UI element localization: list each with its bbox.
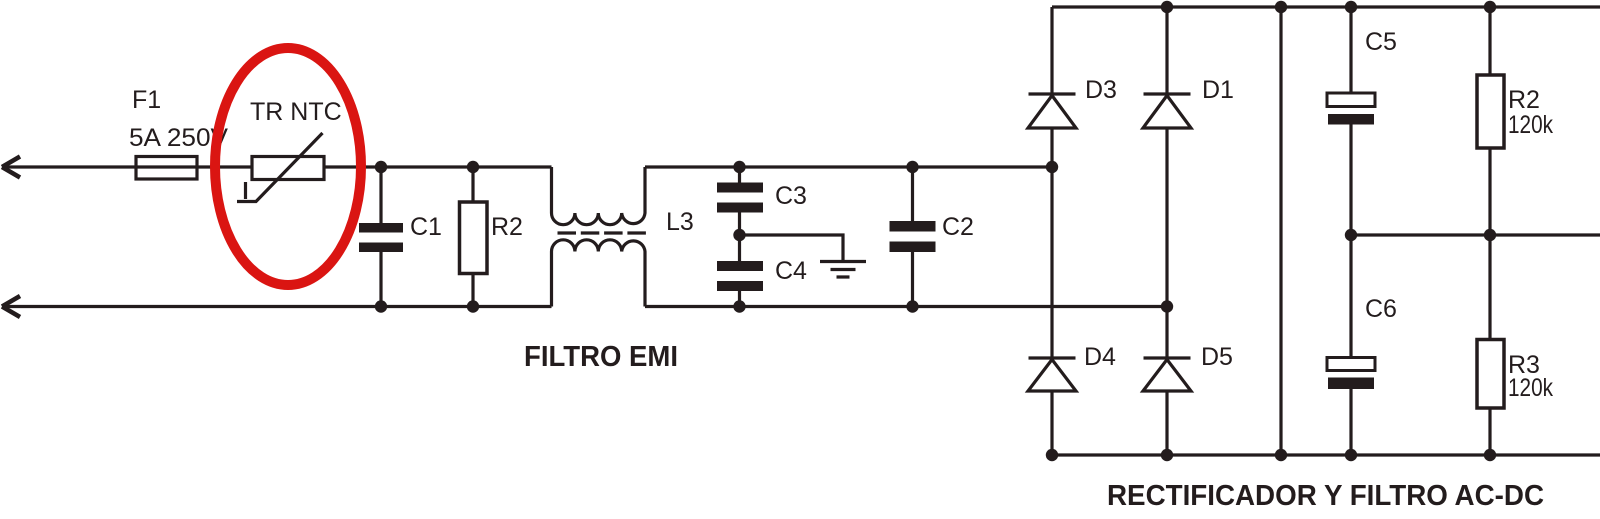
node bridge AC right junction [1161,300,1173,312]
svg-text:C2: C2 [942,213,974,241]
svg-text:R2: R2 [1508,86,1540,114]
capacitor C5 (polarized) [1327,93,1375,125]
resistor R2 (left) body [460,202,488,274]
svg-text:D5: D5 [1201,343,1233,371]
ground symbol [820,262,866,278]
svg-text:C5: C5 [1365,28,1397,56]
svg-text:R2: R2 [491,213,523,241]
wire bridge right column [1165,7,1168,455]
capacitor C6 (polarized) [1327,358,1375,390]
node bottom bus D4 junction [1046,449,1058,461]
node bottom wire C4 junction [733,300,745,312]
wire bottom DC bus [1052,453,1600,456]
svg-text:120k: 120k [1508,111,1553,139]
svg-text:TR NTC: TR NTC [250,98,342,126]
capacitor C2 plates [890,221,936,252]
thermistor TR NTC diagonal stroke [237,133,323,202]
wire top AC line left segment (L input) [3,165,552,168]
inductor L3 bottom winding [552,240,646,307]
wire bridge output column [1279,7,1282,455]
node bottom bus C6 junction [1345,449,1357,461]
wire capacitor C2 leads [911,167,914,307]
node top bus C5 junction [1345,1,1357,13]
node top bus D1 junction [1161,1,1173,13]
wire middle rail [1351,233,1600,236]
wire capacitor C1 leads [379,167,382,307]
svg-text:FILTRO EMI: FILTRO EMI [524,341,678,373]
svg-text:C1: C1 [410,213,442,241]
capacitor C1 plates [359,223,403,252]
node bottom wire C2 junction [906,300,918,312]
arrow left on bottom AC line [2,296,20,317]
diode D4 [1028,358,1076,391]
svg-text:D1: D1 [1202,76,1234,104]
node top wire R2 junction [467,161,479,173]
node top wire C1 junction [375,161,387,173]
diode D5 [1143,358,1191,391]
svg-text:120k: 120k [1508,374,1553,402]
node top bus bridge output junction [1275,1,1287,13]
resistor R3 body [1477,340,1504,409]
node C3 C4 midpoint junction [733,229,745,241]
node bottom bus D5 junction [1161,449,1173,461]
capacitor C4 plates [717,261,763,291]
fuse F1 [136,157,197,180]
capacitor C3 plates [717,183,763,213]
svg-text:F1: F1 [132,86,161,114]
diode D3 [1028,94,1076,128]
svg-text:C3: C3 [775,182,807,210]
wire capacitor C5 C6 column [1349,7,1352,455]
node top wire C2 junction [906,161,918,173]
wire resistor R2 (left) leads [471,167,474,307]
thermistor TR NTC tick mark [244,182,247,199]
node bottom wire R2 junction [467,300,479,312]
node bridge AC left junction [1046,161,1058,173]
wire bottom AC line right segment (choke to bridge) [645,305,1167,308]
svg-text:D3: D3 [1085,76,1117,104]
wire resistor R2 R3 column [1488,7,1491,455]
wire bridge left column [1050,7,1053,455]
inductor L3 top winding [552,167,646,225]
wire top AC line right segment (choke to bridge) [645,165,1052,168]
svg-text:C4: C4 [775,257,807,285]
wire middle node to ground [740,235,844,262]
svg-text:L3: L3 [666,208,694,236]
node bottom bus R3 junction [1484,449,1496,461]
node bottom wire C1 junction [375,300,387,312]
thermistor TR NTC body [252,157,324,180]
svg-text:D4: D4 [1084,343,1116,371]
svg-text:RECTIFICADOR Y FILTRO AC-DC: RECTIFICADOR Y FILTRO AC-DC [1107,480,1544,512]
inductor L3 core dashed line [558,231,647,234]
resistor R2 (right) body [1477,75,1504,148]
wire bottom AC line left segment (N input) [3,305,552,308]
node top wire C3 junction [733,161,745,173]
svg-text:C6: C6 [1365,295,1397,323]
node middle rail R2 R3 junction [1484,229,1496,241]
wire capacitor C3 C4 branch [738,167,741,307]
node top bus R2 junction [1484,1,1496,13]
arrow left on top AC line [2,157,20,178]
node bottom bus bridge output junction [1275,449,1287,461]
wire top DC bus [1052,5,1600,8]
node middle rail C5 C6 junction [1345,229,1357,241]
diode D1 [1143,94,1191,128]
red highlight ellipse around TR NTC [215,48,361,285]
